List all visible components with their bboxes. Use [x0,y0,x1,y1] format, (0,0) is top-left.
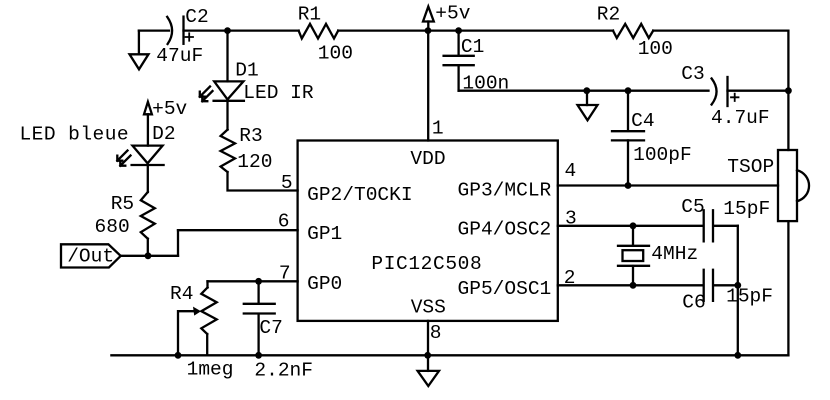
svg-text:TSOP: TSOP [727,156,774,178]
svg-text:LED bleue: LED bleue [20,124,130,146]
svg-text:100pF: 100pF [633,144,692,166]
svg-text:100: 100 [318,43,353,65]
svg-text:PIC12C508: PIC12C508 [371,253,482,275]
svg-text:120: 120 [237,151,272,173]
svg-text:GP4/OSC2: GP4/OSC2 [458,219,552,241]
svg-text:C7: C7 [259,317,282,339]
svg-text:8: 8 [430,322,442,344]
svg-text:D2: D2 [152,123,175,145]
svg-text:VDD: VDD [410,148,445,170]
svg-text:+5v: +5v [435,3,470,25]
svg-text:R2: R2 [597,4,620,26]
svg-text:R5: R5 [111,193,134,215]
svg-text:1: 1 [432,118,444,140]
svg-text:R1: R1 [298,4,321,26]
svg-text:15pF: 15pF [723,198,770,220]
svg-text:47uF: 47uF [156,45,203,67]
svg-text:D1: D1 [235,60,258,82]
svg-text:C6: C6 [682,292,705,314]
svg-text:GP1: GP1 [307,223,342,245]
svg-text:R4: R4 [170,283,193,305]
svg-text:/Out: /Out [67,246,114,268]
svg-text:C5: C5 [681,196,704,218]
svg-text:4: 4 [565,160,577,182]
svg-text:1meg: 1meg [187,359,234,381]
svg-text:3: 3 [565,207,577,229]
svg-text:+5v: +5v [152,98,187,120]
svg-text:680: 680 [95,216,130,238]
svg-text:C4: C4 [631,110,654,132]
svg-text:C1: C1 [461,36,484,58]
svg-text:GP2/T0CKI: GP2/T0CKI [307,184,413,206]
svg-text:4.7uF: 4.7uF [711,107,770,129]
svg-text:LED IR: LED IR [243,82,314,104]
svg-text:C2: C2 [185,6,208,28]
svg-text:2: 2 [564,267,576,289]
svg-text:R3: R3 [239,125,262,147]
svg-text:GP0: GP0 [307,273,342,295]
svg-text:GP3/MCLR: GP3/MCLR [458,179,552,201]
svg-text:7: 7 [279,263,291,285]
svg-text:6: 6 [278,211,290,233]
svg-text:4MHz: 4MHz [651,243,698,265]
svg-text:GP5/OSC1: GP5/OSC1 [458,278,552,300]
svg-text:15pF: 15pF [726,286,773,308]
svg-text:VSS: VSS [411,297,446,319]
svg-text:100n: 100n [462,72,509,94]
svg-text:C3: C3 [681,63,704,85]
svg-text:5: 5 [281,172,293,194]
svg-text:100: 100 [638,38,673,60]
svg-text:2.2nF: 2.2nF [254,360,313,382]
